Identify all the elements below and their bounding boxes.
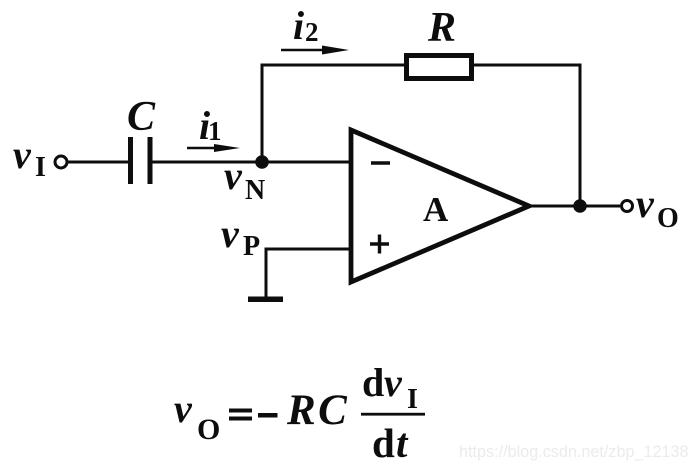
wire vN up (261, 65, 264, 162)
plus input symbol (370, 235, 389, 254)
wire vP down (265, 248, 268, 299)
arrow i2 (281, 46, 349, 55)
wire input (68, 161, 128, 164)
wire top left (261, 64, 407, 67)
svg-text:2: 2 (305, 17, 319, 47)
svg-text:I: I (35, 152, 46, 183)
svg-text:v: v (221, 211, 240, 256)
svg-text:RC: RC (286, 387, 349, 434)
svg-text:v: v (636, 181, 655, 226)
svg-text:N: N (245, 175, 265, 206)
label vI (13, 132, 46, 183)
label i2 (293, 3, 319, 48)
wire capacitor to opamp (152, 161, 351, 164)
svg-text:O: O (197, 413, 220, 446)
svg-text:1: 1 (208, 116, 222, 146)
capacitor C1 (128, 137, 153, 184)
svg-text:v: v (174, 386, 193, 431)
svg-text:i: i (293, 3, 304, 48)
svg-text:v: v (13, 132, 32, 177)
svg-text:https://blog.csdn.net/zbp_1213: https://blog.csdn.net/zbp_12138 (459, 443, 689, 461)
wire plus input (266, 248, 351, 251)
wire top right (472, 64, 582, 67)
terminal vO (622, 201, 633, 212)
node vN (255, 155, 269, 169)
label vO (636, 181, 679, 234)
label i1 (199, 103, 222, 148)
svg-text:v: v (384, 360, 403, 405)
wire down to output (579, 65, 582, 206)
svg-text:R: R (427, 5, 456, 51)
svg-text:v: v (224, 153, 243, 198)
svg-text:C: C (127, 94, 156, 140)
svg-text:I: I (407, 384, 418, 415)
svg-text:O: O (657, 203, 679, 234)
wire output (529, 205, 620, 208)
node output (573, 199, 587, 213)
resistor R1 (407, 56, 472, 79)
arrow i1 (187, 144, 240, 152)
label vP (221, 211, 260, 262)
svg-text:d: d (372, 420, 395, 466)
svg-text:d: d (362, 360, 384, 405)
minus input symbol (371, 161, 390, 164)
formula vO = -RC dvI/dt (174, 360, 425, 466)
op-amp A (351, 130, 529, 282)
svg-text:t: t (396, 420, 409, 466)
label vN (224, 153, 265, 206)
ground (248, 297, 283, 303)
terminal vI (55, 156, 67, 168)
svg-text:P: P (243, 231, 260, 262)
svg-text:A: A (423, 190, 449, 229)
